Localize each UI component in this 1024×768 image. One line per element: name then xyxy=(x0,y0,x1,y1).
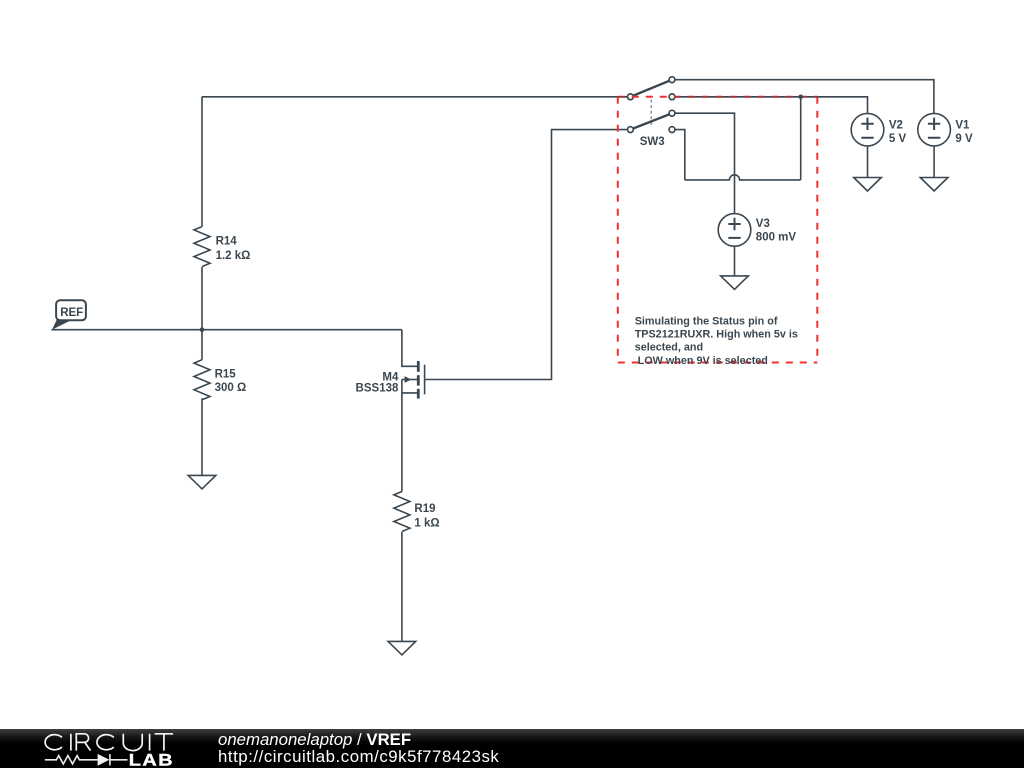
SW3 throw1b circle xyxy=(669,94,675,100)
wire R15 top xyxy=(201,330,203,360)
annotation text xyxy=(635,316,798,367)
wire top rail to SW3 pole1 xyxy=(202,96,628,98)
SW3 throw1a circle xyxy=(669,77,675,83)
switch SW3 xyxy=(628,77,675,133)
svg-text:V3: V3 xyxy=(756,218,770,230)
ground V1 xyxy=(920,178,948,192)
wire V3 to ground xyxy=(734,246,736,276)
ground R19 xyxy=(388,641,416,655)
SW3 throw2b circle xyxy=(669,127,675,133)
svg-text:SW3: SW3 xyxy=(640,136,665,148)
footer bar xyxy=(0,729,1024,768)
svg-text:BSS138: BSS138 xyxy=(356,383,399,395)
wire throw2a to V3 xyxy=(675,113,735,213)
SW3 pivot circle pole1 xyxy=(628,94,634,100)
svg-text:1.2 kΩ: 1.2 kΩ xyxy=(216,250,251,262)
ground R15 xyxy=(188,475,216,489)
svg-text:R15: R15 xyxy=(215,369,237,381)
svg-text:V2: V2 xyxy=(889,120,903,132)
annotation red dashed box xyxy=(618,97,818,363)
svg-text:REF: REF xyxy=(60,307,83,319)
wire R19 to ground xyxy=(401,532,403,642)
voltage source V1 xyxy=(918,113,951,146)
voltage source V3 xyxy=(718,214,751,247)
node junction dot REF xyxy=(200,327,205,332)
node flag REF xyxy=(52,300,86,330)
svg-text:300 Ω: 300 Ω xyxy=(215,382,247,394)
wire M4 drain xyxy=(402,330,417,367)
transistor M4 body line xyxy=(402,379,417,381)
svg-text:800 mV: 800 mV xyxy=(756,231,797,243)
wire R15 to ground xyxy=(201,398,203,475)
SW3 gang link dashed xyxy=(650,100,652,127)
wire M4 gate to SW3 pole2 xyxy=(425,130,627,380)
svg-text:TPS2121RUXR. High when 5v is: TPS2121RUXR. High when 5v is xyxy=(635,328,798,340)
ground V2 xyxy=(854,178,882,192)
logo CircuitLab xyxy=(0,729,200,768)
wire V2 to ground xyxy=(867,146,869,178)
wire SW3 throw1b to V2 xyxy=(675,97,868,114)
wire overlay on red top edge xyxy=(618,96,868,98)
wire R14 top to rail xyxy=(201,97,203,227)
svg-text:LAB: LAB xyxy=(129,751,174,768)
wire M4 source xyxy=(402,380,417,492)
svg-text:R14: R14 xyxy=(216,235,238,247)
wire throw2b down xyxy=(675,130,685,180)
voltage source V2 xyxy=(851,113,884,146)
wire status tap down xyxy=(800,97,802,180)
svg-text:Simulating the Status pin of: Simulating the Status pin of xyxy=(635,316,778,328)
wire R14 bottom xyxy=(201,267,203,330)
svg-text:R19: R19 xyxy=(414,503,435,515)
resistor R14 xyxy=(194,227,210,267)
SW3 lever pole2 xyxy=(630,113,672,129)
SW3 pivot circle pole2 xyxy=(628,127,634,133)
transistor M4 body arrow xyxy=(405,376,412,383)
svg-text:1 kΩ: 1 kΩ xyxy=(414,518,439,530)
wire V1 to ground xyxy=(933,146,935,178)
svg-text:5 V: 5 V xyxy=(889,133,907,145)
svg-text:9 V: 9 V xyxy=(955,133,973,145)
SW3 throw2a circle xyxy=(669,110,675,116)
wire REF net horizontal xyxy=(52,329,402,331)
transistor M4 gate bar xyxy=(424,365,426,395)
resistor R19 xyxy=(394,492,410,532)
SW3 lever pole1 xyxy=(630,80,672,97)
wire SW3 throw1a to V1 xyxy=(675,80,934,114)
ground V3 xyxy=(721,276,749,290)
svg-text:M4: M4 xyxy=(382,371,399,383)
wire status bottom with hop xyxy=(685,175,801,180)
transistor M4 channel bars xyxy=(417,361,420,399)
svg-text:LOW when 9V is selected: LOW when 9V is selected xyxy=(635,355,768,367)
node junction dot status xyxy=(798,95,803,100)
svg-text:selected, and: selected, and xyxy=(635,341,703,353)
footer site text xyxy=(218,731,499,767)
svg-text:V1: V1 xyxy=(955,120,970,132)
resistor R15 xyxy=(194,360,210,400)
